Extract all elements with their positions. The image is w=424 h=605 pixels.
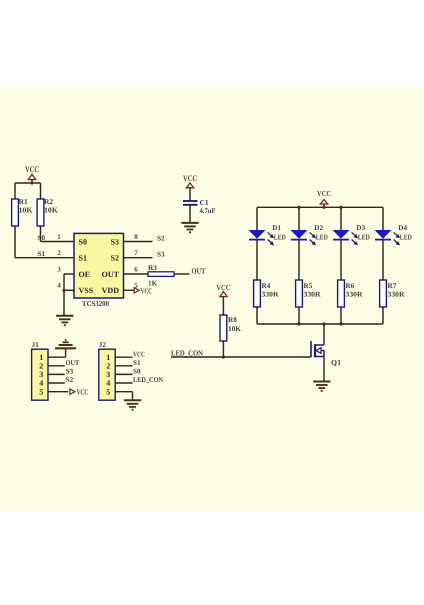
svg-text:330R: 330R <box>388 291 406 299</box>
svg-text:R4: R4 <box>262 282 271 290</box>
svg-text:VDD: VDD <box>102 286 120 295</box>
svg-text:4: 4 <box>57 282 61 290</box>
svg-text:LED_CON: LED_CON <box>133 376 164 384</box>
svg-text:7: 7 <box>134 249 138 257</box>
svg-text:S2: S2 <box>157 234 165 242</box>
svg-text:10K: 10K <box>44 206 58 215</box>
svg-text:10K: 10K <box>19 206 33 215</box>
svg-text:8: 8 <box>134 233 138 241</box>
svg-text:2: 2 <box>57 249 61 257</box>
svg-text:LED: LED <box>274 233 286 241</box>
svg-text:VCC: VCC <box>77 387 89 396</box>
svg-text:5: 5 <box>106 387 110 396</box>
svg-text:VCC: VCC <box>141 286 153 295</box>
svg-text:J2: J2 <box>99 341 107 349</box>
svg-text:LED: LED <box>400 233 412 241</box>
svg-text:S3: S3 <box>66 368 74 376</box>
svg-text:S0: S0 <box>79 237 87 246</box>
svg-text:R8: R8 <box>228 316 237 324</box>
svg-text:4: 4 <box>106 379 110 388</box>
svg-text:S1: S1 <box>79 254 87 263</box>
svg-text:R5: R5 <box>304 282 313 290</box>
svg-text:D2: D2 <box>314 224 323 232</box>
svg-text:R7: R7 <box>388 282 397 290</box>
svg-text:D3: D3 <box>356 224 365 232</box>
svg-text:VCC: VCC <box>25 164 39 174</box>
svg-text:VCC: VCC <box>133 350 145 358</box>
svg-text:OUT: OUT <box>102 270 120 279</box>
svg-text:S1: S1 <box>38 250 46 258</box>
svg-text:D4: D4 <box>398 224 407 232</box>
svg-text:R6: R6 <box>346 282 355 290</box>
svg-text:VSS: VSS <box>79 286 94 295</box>
svg-text:S2: S2 <box>66 376 74 384</box>
svg-text:330R: 330R <box>304 291 322 299</box>
svg-text:VCC: VCC <box>216 283 230 292</box>
svg-text:D1: D1 <box>272 224 281 232</box>
svg-text:4: 4 <box>39 379 43 388</box>
svg-text:VCC: VCC <box>183 173 197 183</box>
svg-text:S0: S0 <box>38 234 46 242</box>
svg-text:S0: S0 <box>133 368 141 376</box>
svg-text:330R: 330R <box>262 291 280 299</box>
svg-text:3: 3 <box>57 265 61 273</box>
svg-text:330R: 330R <box>346 291 364 299</box>
svg-text:Q1: Q1 <box>331 358 341 367</box>
svg-text:S2: S2 <box>111 254 119 263</box>
svg-text:OE: OE <box>79 270 91 279</box>
svg-text:S3: S3 <box>111 237 119 246</box>
svg-text:6: 6 <box>134 265 138 273</box>
svg-text:LED: LED <box>316 233 328 241</box>
svg-text:LED: LED <box>358 233 370 241</box>
svg-text:TCS3200: TCS3200 <box>82 299 109 308</box>
svg-text:4.7uF: 4.7uF <box>200 207 217 215</box>
svg-text:OUT: OUT <box>192 266 207 275</box>
svg-text:VCC: VCC <box>317 189 331 198</box>
svg-text:1: 1 <box>57 233 61 241</box>
svg-text:OUT: OUT <box>66 359 80 367</box>
svg-text:J1: J1 <box>32 341 40 349</box>
svg-text:S3: S3 <box>157 251 165 259</box>
svg-text:S1: S1 <box>133 359 141 367</box>
svg-text:10K: 10K <box>228 325 241 333</box>
svg-text:5: 5 <box>39 387 43 396</box>
svg-text:C1: C1 <box>200 198 209 207</box>
svg-text:R3: R3 <box>148 264 157 272</box>
svg-text:LED_CON: LED_CON <box>171 348 204 357</box>
